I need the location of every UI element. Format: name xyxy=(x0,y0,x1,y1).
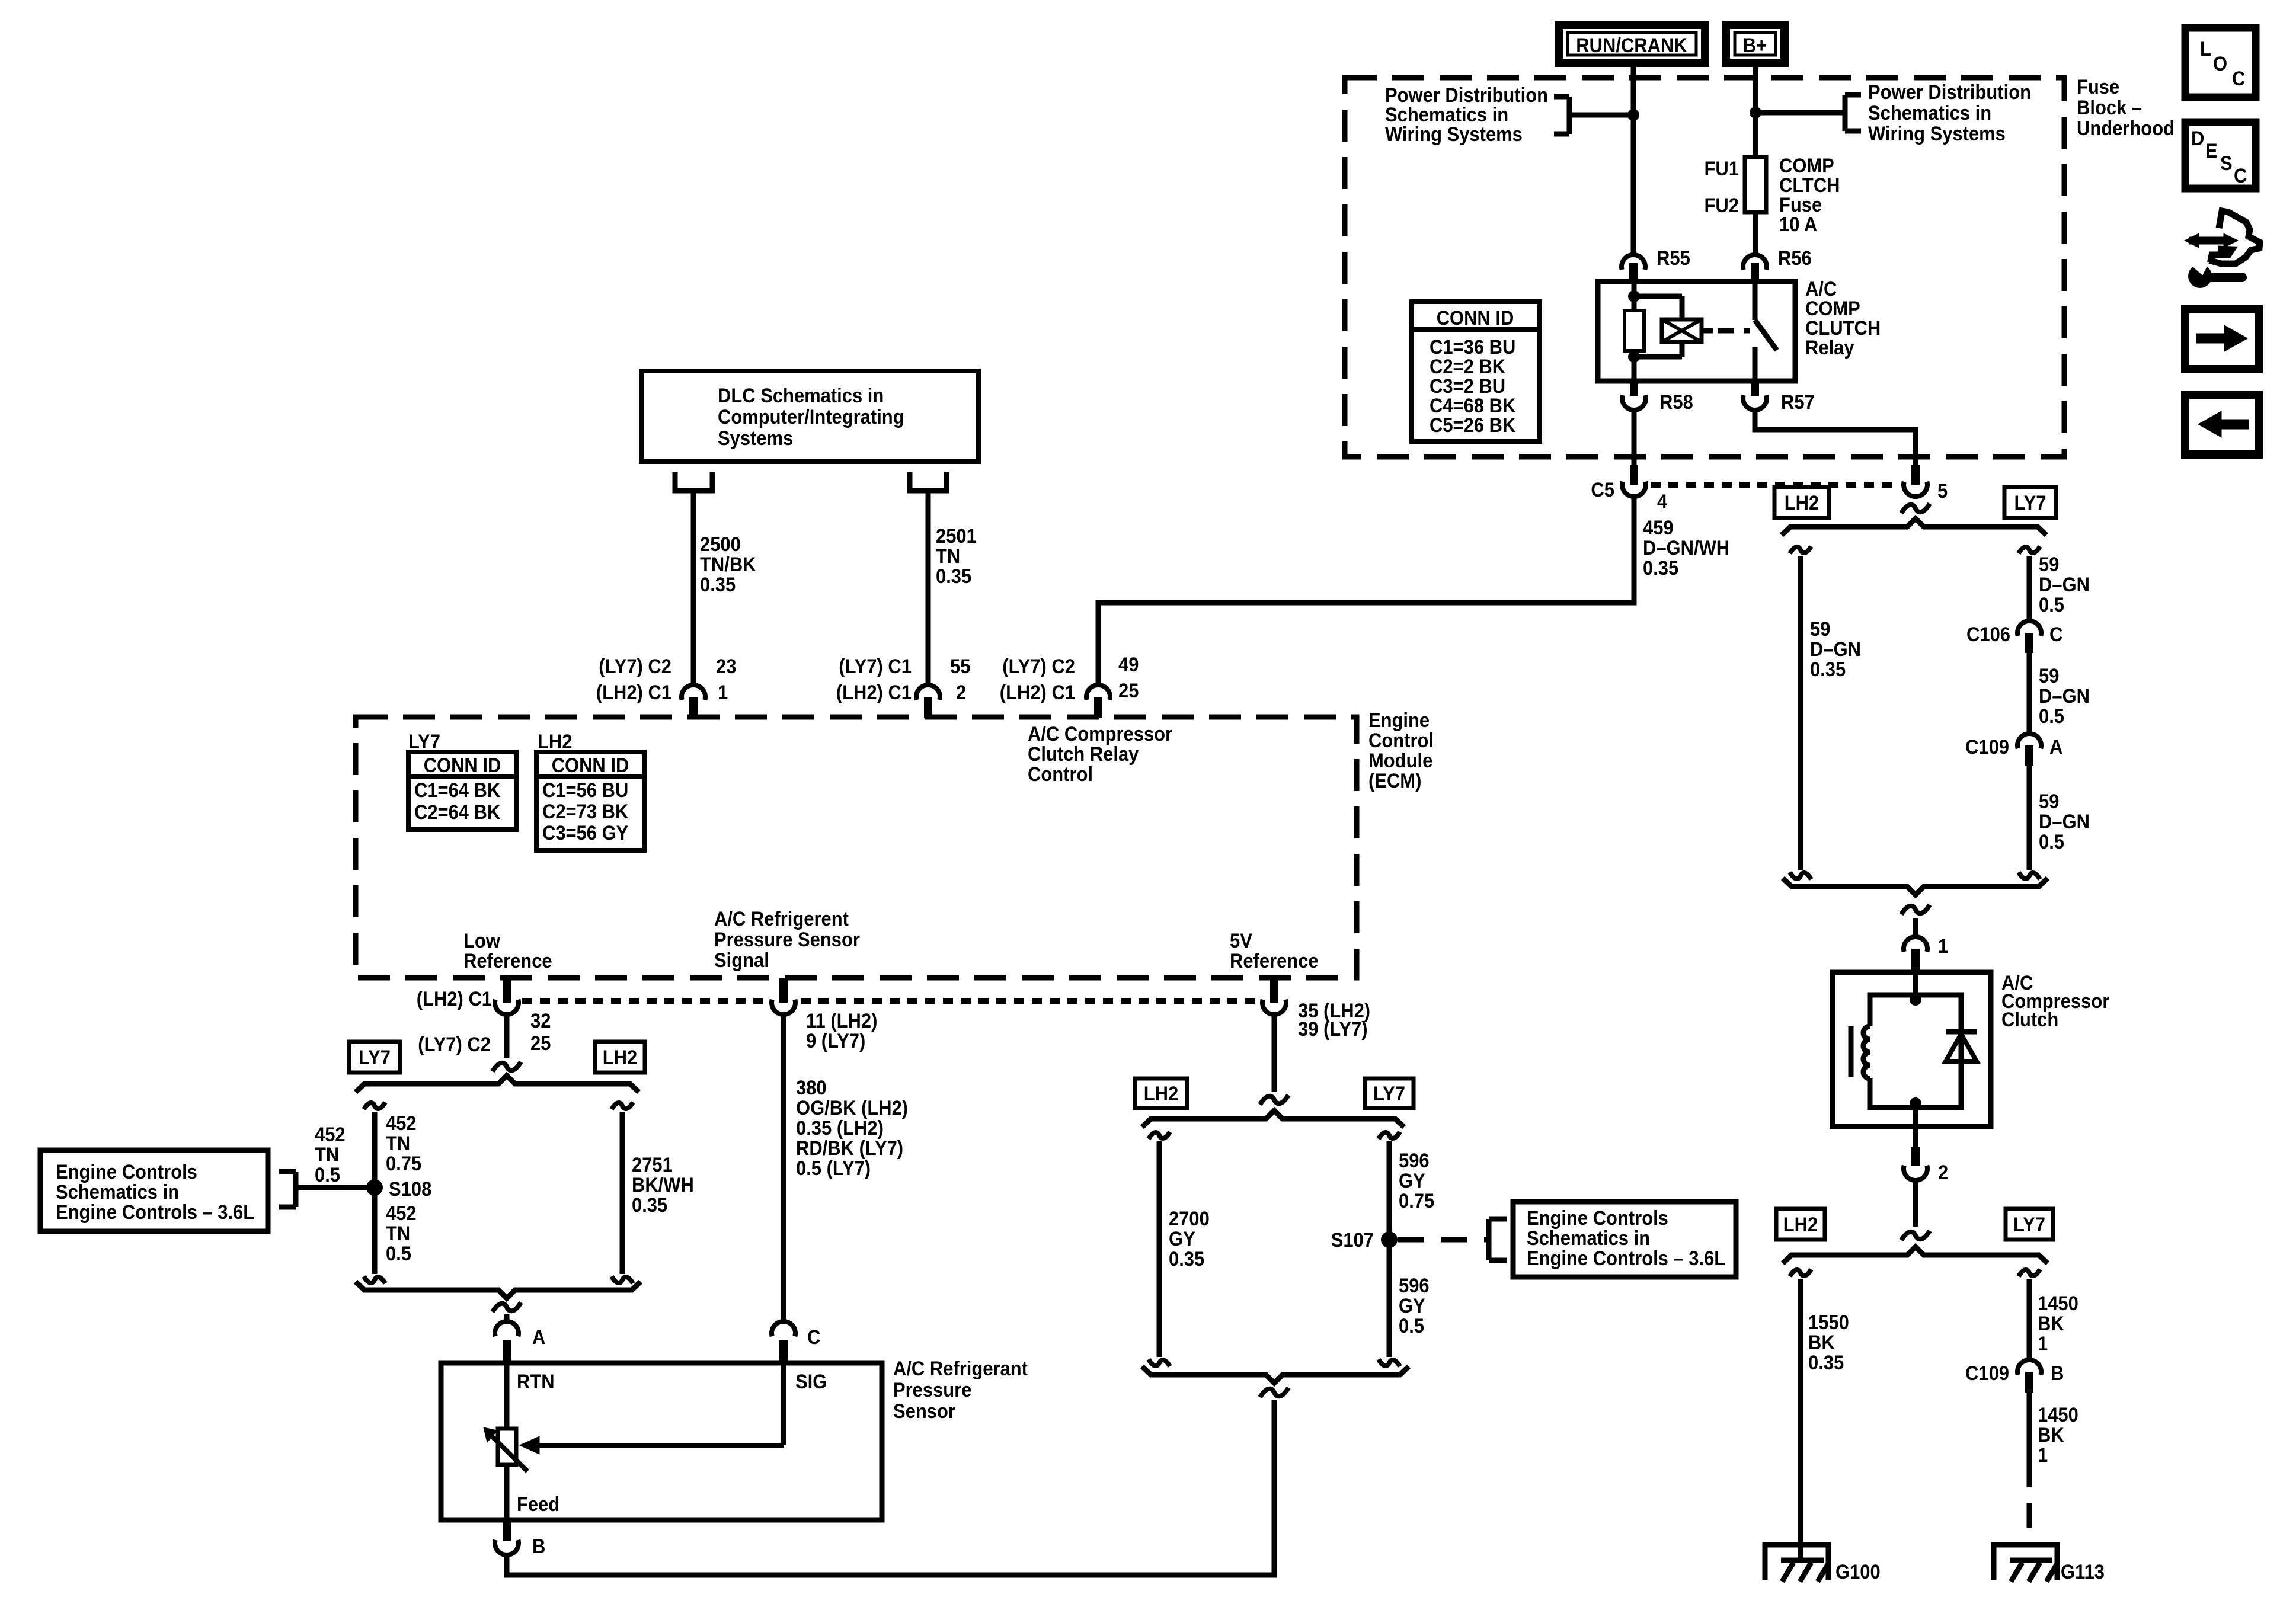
svg-text:RTN: RTN xyxy=(517,1371,555,1393)
svg-text:10 A: 10 A xyxy=(1779,213,1817,236)
bracket engine controls left xyxy=(279,1172,296,1207)
dashed wire to G113 xyxy=(2027,1462,2032,1541)
svg-text:380: 380 xyxy=(796,1077,827,1099)
svg-text:BK: BK xyxy=(2038,1424,2064,1446)
connector Low Reference pin xyxy=(495,978,519,1014)
svg-text:1: 1 xyxy=(2038,1333,2048,1355)
svg-text:59: 59 xyxy=(1810,618,1830,641)
svg-text:25: 25 xyxy=(1118,680,1139,702)
labels pin 2/55 xyxy=(836,655,971,704)
label Power Distribution Schematics in Wiring Systems (left) xyxy=(1385,84,1548,146)
svg-text:2: 2 xyxy=(1938,1161,1948,1184)
relay coil wire lower xyxy=(1632,351,1637,381)
label RTN xyxy=(517,1371,555,1393)
svg-text:C1=56 BU: C1=56 BU xyxy=(542,779,628,802)
svg-text:Schematics in: Schematics in xyxy=(1527,1227,1650,1250)
power label RUN/CRANK xyxy=(1559,25,1705,63)
svg-text:1: 1 xyxy=(2038,1444,2048,1467)
svg-text:LY7: LY7 xyxy=(2014,492,2046,514)
svg-text:OG/BK (LH2): OG/BK (LH2) xyxy=(796,1097,908,1119)
svg-text:0.35: 0.35 xyxy=(936,565,971,588)
relay CONN ID table xyxy=(1412,302,1540,441)
icon diagnostic tool xyxy=(2185,211,2260,288)
svg-text:C2=64 BK: C2=64 BK xyxy=(414,801,501,824)
relay actuator branch top xyxy=(1634,296,1682,319)
svg-text:LY7: LY7 xyxy=(359,1046,391,1069)
svg-text:D: D xyxy=(2191,127,2204,150)
wire below clutch xyxy=(1913,1126,1918,1147)
svg-text:452: 452 xyxy=(315,1124,346,1146)
brace right top xyxy=(1782,518,2046,535)
relay actuator tail xyxy=(1702,328,1713,334)
svg-text:Underhood: Underhood xyxy=(2077,117,2175,140)
svg-text:(ECM): (ECM) xyxy=(1368,770,1421,792)
squiggle above pin 1 xyxy=(1901,905,1930,914)
svg-text:0.5: 0.5 xyxy=(2039,705,2064,728)
svg-text:TN: TN xyxy=(936,545,960,568)
bar left 59 D-GN 0.35 xyxy=(1790,546,1811,879)
wire fuse to R56 xyxy=(1753,212,1758,254)
bracket left power distribution xyxy=(1554,97,1569,134)
svg-text:(LY7) C2: (LY7) C2 xyxy=(418,1033,491,1056)
svg-text:59: 59 xyxy=(2039,790,2059,813)
svg-text:Schematics in: Schematics in xyxy=(1868,102,1991,124)
clutch feed wire xyxy=(1913,972,1918,997)
relay coil wire upper xyxy=(1632,281,1637,311)
svg-text:(LY7) C2: (LY7) C2 xyxy=(1002,655,1075,678)
relay switch contact upper xyxy=(1753,281,1758,320)
squiggle below middle brace xyxy=(1260,1388,1288,1397)
icon back arrow box xyxy=(2185,395,2259,454)
squiggle 5V xyxy=(1260,1095,1288,1105)
svg-text:25: 25 xyxy=(530,1032,551,1055)
svg-text:LH2: LH2 xyxy=(1144,1083,1179,1105)
svg-text:C109: C109 xyxy=(1965,1362,2009,1385)
relay switch blade xyxy=(1755,320,1777,350)
wire into pin 1 xyxy=(1913,918,1918,938)
svg-text:0.5: 0.5 xyxy=(1399,1315,1424,1337)
label 5V Reference xyxy=(1230,930,1319,972)
label LH2 conn table title xyxy=(538,731,573,753)
connector terminal R58 xyxy=(1622,381,1693,414)
svg-text:B: B xyxy=(532,1535,545,1558)
wire 5V to brace xyxy=(1272,1014,1277,1092)
junction clutch top xyxy=(1910,994,1921,1006)
clutch diode xyxy=(1946,1032,1977,1061)
svg-text:11 (LH2): 11 (LH2) xyxy=(806,1010,877,1032)
label 1550 BK 0.35 xyxy=(1808,1311,1849,1374)
svg-text:0.5 (LY7): 0.5 (LY7) xyxy=(796,1157,871,1180)
svg-text:1450: 1450 xyxy=(2038,1404,2078,1426)
svg-text:R55: R55 xyxy=(1657,247,1690,270)
svg-text:596: 596 xyxy=(1399,1150,1430,1172)
svg-text:DLC Schematics in: DLC Schematics in xyxy=(718,385,884,407)
svg-text:(LH2) C1: (LH2) C1 xyxy=(836,681,912,704)
junction on RUN/CRANK wire xyxy=(1627,109,1639,121)
svg-text:D–GN: D–GN xyxy=(1810,638,1861,661)
wire S108 stub xyxy=(298,1185,375,1190)
brace right bottom xyxy=(1783,878,2048,895)
connector terminal R55 xyxy=(1622,247,1690,281)
svg-text:(LH2) C1: (LH2) C1 xyxy=(596,681,671,704)
svg-text:Reference: Reference xyxy=(463,950,552,972)
relay coil resistor element xyxy=(1625,311,1644,351)
DLC Schematics box xyxy=(641,371,978,462)
harness dotted line C5 to 5 xyxy=(1651,482,1900,488)
svg-text:D–GN: D–GN xyxy=(2039,811,2090,833)
svg-text:1550: 1550 xyxy=(1808,1311,1849,1334)
svg-text:A/C Refrigerent: A/C Refrigerent xyxy=(714,908,849,930)
bar 2700 GY xyxy=(1149,1132,1170,1366)
svg-text:C5=26 BK: C5=26 BK xyxy=(1430,414,1516,437)
svg-text:GY: GY xyxy=(1399,1170,1425,1192)
svg-text:9 (LY7): 9 (LY7) xyxy=(806,1030,865,1052)
svg-text:C: C xyxy=(2049,623,2062,646)
wire 2500 TN/BK xyxy=(691,491,696,685)
svg-text:LY7: LY7 xyxy=(2013,1214,2045,1236)
svg-text:Control: Control xyxy=(1028,763,1093,786)
junction on B+ wire xyxy=(1750,107,1761,119)
svg-text:C109: C109 xyxy=(1965,736,2009,758)
icon forward arrow box xyxy=(2185,309,2259,369)
svg-text:Pressure Sensor: Pressure Sensor xyxy=(714,929,860,951)
junction S108 xyxy=(366,1178,431,1201)
svg-text:A: A xyxy=(532,1326,545,1349)
junction clutch bottom xyxy=(1910,1097,1921,1109)
svg-text:C: C xyxy=(2232,68,2245,90)
wire low ref to brace xyxy=(504,1014,510,1058)
svg-text:Sensor: Sensor xyxy=(893,1400,955,1423)
svg-text:FU2: FU2 xyxy=(1705,194,1739,217)
svg-text:Wiring Systems: Wiring Systems xyxy=(1385,123,1523,146)
svg-text:O: O xyxy=(2213,53,2227,75)
connector ECM pin 1/23 xyxy=(682,685,705,718)
wire below C109 B xyxy=(2027,1393,2032,1462)
svg-text:0.5: 0.5 xyxy=(2039,594,2064,616)
svg-text:2: 2 xyxy=(956,681,966,704)
bar right upper segment xyxy=(2019,546,2040,621)
label 59 D-GN 0.5 (lower) xyxy=(2039,790,2090,853)
relay switch contact lower xyxy=(1753,347,1758,381)
svg-text:2501: 2501 xyxy=(936,525,977,548)
squiggle above A xyxy=(493,1302,521,1312)
clutch ground wire xyxy=(1913,1108,1918,1126)
LY7 CONN ID table xyxy=(408,752,516,830)
box Engine Controls Schematics (left) xyxy=(40,1150,268,1231)
power label B+ xyxy=(1726,25,1785,63)
label DLC Schematics in Computer/Integrating Systems xyxy=(718,385,904,450)
sensor signal arrow xyxy=(520,1436,784,1454)
label 452 TN 0.5 (stub) xyxy=(315,1124,346,1186)
svg-text:452: 452 xyxy=(386,1112,417,1135)
svg-text:0.5: 0.5 xyxy=(2039,831,2064,853)
label 596 GY 0.5 xyxy=(1399,1275,1430,1337)
label 59 D-GN 0.5 (upper) xyxy=(2039,553,2090,616)
label Fuse Block - Underhood xyxy=(2077,76,2175,140)
label 59 D-GN 0.35 xyxy=(1810,618,1861,681)
svg-text:CONN ID: CONN ID xyxy=(552,754,629,777)
svg-text:A: A xyxy=(2049,736,2062,758)
sensor resistor arrow xyxy=(484,1427,527,1471)
svg-text:0.5: 0.5 xyxy=(315,1164,340,1186)
svg-text:RUN/CRANK: RUN/CRANK xyxy=(1576,34,1687,57)
label 2500 TN/BK 0.35 xyxy=(700,533,756,596)
brace left top xyxy=(356,1076,639,1092)
tag LY7 left xyxy=(349,1042,400,1073)
label A/C Compressor Clutch xyxy=(2001,972,2109,1031)
labels pin 25/49 xyxy=(1000,654,1139,704)
svg-text:R57: R57 xyxy=(1781,391,1815,414)
tag LH2 left xyxy=(595,1042,645,1073)
svg-text:RD/BK (LY7): RD/BK (LY7) xyxy=(796,1137,903,1160)
connector ECM pin 25/49 xyxy=(1086,685,1110,718)
svg-text:Clutch: Clutch xyxy=(2001,1009,2058,1031)
harness dotted line ECM bottom xyxy=(522,998,1261,1004)
wire R58 to C5 xyxy=(1632,410,1637,465)
svg-text:B: B xyxy=(2051,1362,2064,1385)
svg-text:Block –: Block – xyxy=(2077,97,2142,119)
svg-text:0.5: 0.5 xyxy=(386,1243,411,1265)
svg-text:A/C Compressor: A/C Compressor xyxy=(1028,723,1172,745)
label 2700 GY 0.35 xyxy=(1169,1208,1210,1270)
relay actuator X box xyxy=(1662,319,1702,342)
sensor RTN wire xyxy=(504,1363,510,1429)
svg-text:G100: G100 xyxy=(1835,1561,1881,1583)
tag LH2 middle xyxy=(1135,1078,1187,1108)
svg-text:59: 59 xyxy=(2039,665,2059,687)
brace middle bottom xyxy=(1142,1366,1409,1383)
svg-text:452: 452 xyxy=(386,1202,417,1225)
label 2501 TN 0.35 xyxy=(936,525,977,588)
svg-text:32: 32 xyxy=(530,1010,551,1032)
svg-text:L: L xyxy=(2200,38,2211,60)
label 380 OG/BK RD/BK xyxy=(796,1077,908,1180)
dashed wire S107 xyxy=(1398,1237,1489,1243)
connector terminal R57 xyxy=(1743,381,1815,414)
svg-text:Signal: Signal xyxy=(714,949,769,972)
svg-text:(LY7) C1: (LY7) C1 xyxy=(839,655,912,678)
bar 452 TN xyxy=(364,1102,385,1283)
svg-text:0.35 (LH2): 0.35 (LH2) xyxy=(796,1117,884,1140)
svg-text:55: 55 xyxy=(950,655,970,678)
svg-text:BK/WH: BK/WH xyxy=(632,1174,694,1196)
wire below C109 xyxy=(2027,766,2032,870)
label Low Reference xyxy=(463,930,552,972)
connector C109 pin B xyxy=(1965,1360,2064,1393)
svg-text:C1=64 BK: C1=64 BK xyxy=(414,779,501,802)
bar 596 GY xyxy=(1379,1132,1400,1366)
svg-text:39 (LY7): 39 (LY7) xyxy=(1298,1018,1368,1041)
squiggle low ref xyxy=(493,1062,521,1071)
svg-text:459: 459 xyxy=(1643,517,1674,539)
label A/C COMP CLUTCH Relay xyxy=(1805,278,1881,359)
A/C refrigerant pressure sensor box xyxy=(441,1363,882,1520)
svg-text:23: 23 xyxy=(716,655,736,678)
svg-text:C3=56 GY: C3=56 GY xyxy=(542,822,629,844)
svg-text:S: S xyxy=(2220,152,2233,175)
svg-text:R56: R56 xyxy=(1778,247,1812,270)
svg-text:1: 1 xyxy=(718,681,728,704)
svg-text:2500: 2500 xyxy=(700,533,741,556)
fuse block - underhood dashed boundary xyxy=(1345,78,2064,457)
svg-text:Schematics in: Schematics in xyxy=(56,1181,179,1204)
wire sensor feed return xyxy=(507,1400,1274,1575)
svg-text:G113: G113 xyxy=(2061,1561,2105,1583)
connector Signal pin xyxy=(772,978,795,1014)
svg-text:BK: BK xyxy=(1808,1331,1835,1354)
wire left power distribution link xyxy=(1569,113,1633,118)
squiggle above ground brace xyxy=(1901,1231,1930,1240)
label 596 GY 0.75 xyxy=(1399,1150,1434,1212)
svg-text:0.35: 0.35 xyxy=(632,1194,667,1217)
connector C5 pin 4 xyxy=(1591,465,1667,513)
svg-text:TN: TN xyxy=(315,1144,339,1166)
svg-text:5: 5 xyxy=(1937,480,1948,502)
svg-text:0.35: 0.35 xyxy=(1808,1352,1844,1374)
svg-text:TN/BK: TN/BK xyxy=(700,553,756,576)
svg-text:C106: C106 xyxy=(1966,623,2010,646)
labels 5V pin xyxy=(1298,1000,1370,1041)
fuse FU1/FU2 COMP CLTCH Fuse 10A body xyxy=(1745,157,1766,212)
brace left bottom xyxy=(356,1282,641,1298)
label 459 D-GN/WH 0.35 xyxy=(1643,517,1729,580)
svg-text:2751: 2751 xyxy=(632,1154,673,1176)
bar 1550 BK xyxy=(1790,1269,1811,1560)
wire pin2 to brace xyxy=(1913,1180,1918,1227)
sensor feed wire xyxy=(504,1465,510,1520)
svg-text:S108: S108 xyxy=(389,1178,431,1201)
wire 2501 TN xyxy=(926,491,931,685)
label A/C Compressor Clutch Relay Control xyxy=(1028,723,1172,786)
wire signal drop xyxy=(781,1014,786,1323)
svg-text:4: 4 xyxy=(1657,491,1667,513)
svg-text:5V: 5V xyxy=(1230,930,1252,952)
svg-text:59: 59 xyxy=(2039,553,2059,576)
junction relay coil bottom xyxy=(1628,351,1640,363)
label 452 TN 0.75 xyxy=(386,1112,421,1175)
label SIG xyxy=(795,1371,827,1393)
svg-text:0.35: 0.35 xyxy=(700,574,736,596)
svg-text:Engine Controls: Engine Controls xyxy=(1527,1207,1668,1230)
svg-text:Engine Controls: Engine Controls xyxy=(56,1161,197,1183)
svg-text:C2=73 BK: C2=73 BK xyxy=(542,801,629,823)
box Engine Controls Schematics (right) xyxy=(1513,1202,1736,1277)
svg-text:Pressure: Pressure xyxy=(893,1379,971,1401)
svg-text:0.35: 0.35 xyxy=(1169,1248,1204,1270)
svg-text:Feed: Feed xyxy=(517,1493,559,1516)
connector pin 5 xyxy=(1904,465,1948,502)
label Engine Control Module (ECM) xyxy=(1368,709,1434,792)
DLC left pin receptacle xyxy=(675,472,712,491)
svg-text:GY: GY xyxy=(1169,1228,1195,1250)
svg-text:Engine Controls – 3.6L: Engine Controls – 3.6L xyxy=(1527,1247,1725,1270)
svg-text:(LH2) C1: (LH2) C1 xyxy=(1000,681,1075,704)
relay U1 A/C COMP CLUTCH Relay box xyxy=(1598,281,1795,381)
label Feed xyxy=(517,1493,559,1516)
svg-text:Engine Controls – 3.6L: Engine Controls – 3.6L xyxy=(56,1201,254,1224)
label 59 D-GN 0.5 (middle) xyxy=(2039,665,2090,728)
svg-text:D–GN/WH: D–GN/WH xyxy=(1643,537,1729,559)
wire 459 D-GN/WH drop xyxy=(1098,497,1634,685)
svg-text:C: C xyxy=(2234,165,2247,187)
svg-text:SIG: SIG xyxy=(795,1371,827,1393)
sensor variable resistor xyxy=(498,1429,516,1465)
svg-text:2700: 2700 xyxy=(1169,1208,1210,1230)
connector pin 1 xyxy=(1904,935,1948,972)
tag LH2 right top xyxy=(1774,487,1829,518)
svg-text:D–GN: D–GN xyxy=(2039,574,2090,596)
connector pin 2 xyxy=(1904,1147,1948,1184)
svg-text:FU1: FU1 xyxy=(1705,158,1739,180)
wire B+ feed upper xyxy=(1753,67,1758,157)
labels pin 1/23 xyxy=(596,655,737,704)
svg-text:Reference: Reference xyxy=(1230,950,1319,972)
svg-text:Control: Control xyxy=(1368,729,1434,752)
connector pin C xyxy=(772,1321,820,1363)
bracket right power distribution xyxy=(1845,95,1861,131)
relay actuator dashed link xyxy=(1718,328,1750,334)
clutch inner loop with coil xyxy=(1863,995,1961,1108)
svg-text:LH2: LH2 xyxy=(603,1046,638,1069)
connector C109 pin A xyxy=(1965,734,2062,766)
svg-text:Power Distribution: Power Distribution xyxy=(1868,81,2031,104)
icon DESC box xyxy=(2185,122,2256,188)
svg-text:(LH2) C1: (LH2) C1 xyxy=(417,988,492,1010)
svg-text:LH2: LH2 xyxy=(1785,492,1819,514)
label 2751 BK/WH 0.35 xyxy=(632,1154,694,1217)
wire right power distribution link xyxy=(1755,110,1845,116)
connector terminal R56 xyxy=(1743,247,1812,281)
wire RUN/CRANK feed xyxy=(1631,67,1636,254)
svg-text:0.35: 0.35 xyxy=(1643,557,1678,580)
svg-text:Module: Module xyxy=(1368,750,1432,772)
connector 5V Reference pin xyxy=(1262,978,1286,1014)
svg-text:(LY7) C2: (LY7) C2 xyxy=(599,655,671,678)
ECM dashed box xyxy=(356,717,1357,978)
svg-text:Clutch Relay: Clutch Relay xyxy=(1028,743,1139,766)
junction relay coil top xyxy=(1628,290,1640,302)
svg-text:0.75: 0.75 xyxy=(386,1153,421,1175)
svg-text:Computer/Integrating: Computer/Integrating xyxy=(718,406,904,428)
labels signal pin xyxy=(806,1010,877,1052)
svg-text:GY: GY xyxy=(1399,1295,1425,1317)
LH2 CONN ID table xyxy=(536,752,644,850)
svg-text:1: 1 xyxy=(1938,935,1948,958)
svg-text:C5: C5 xyxy=(1591,479,1614,501)
bar 2751 BK/WH xyxy=(612,1102,633,1283)
svg-text:0.75: 0.75 xyxy=(1399,1190,1434,1212)
svg-text:D–GN: D–GN xyxy=(2039,685,2090,708)
svg-text:596: 596 xyxy=(1399,1275,1430,1297)
svg-text:E: E xyxy=(2205,140,2218,162)
svg-text:R58: R58 xyxy=(1659,391,1693,414)
label LY7 conn table title xyxy=(408,731,440,753)
svg-text:LY7: LY7 xyxy=(1373,1083,1405,1105)
relay actuator branch bottom xyxy=(1634,342,1682,357)
svg-text:LH2: LH2 xyxy=(1783,1214,1818,1236)
sensor SIG wire xyxy=(781,1363,786,1445)
bar right lower curl xyxy=(2019,872,2040,879)
labels low ref pin xyxy=(417,988,551,1056)
A/C compressor clutch box xyxy=(1833,972,1991,1126)
coil core bar xyxy=(1849,1026,1854,1077)
svg-text:Systems: Systems xyxy=(718,427,793,450)
svg-text:TN: TN xyxy=(386,1132,410,1155)
svg-text:0.35: 0.35 xyxy=(1810,658,1846,681)
label Power Distribution Schematics in Wiring Systems (right) xyxy=(1868,81,2031,145)
label FU2 xyxy=(1705,194,1739,217)
tag LH2 ground xyxy=(1776,1209,1825,1240)
